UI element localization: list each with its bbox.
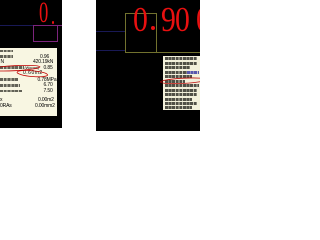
left screenshot panel	[0, 0, 62, 128]
row 3	[1, 60, 4, 65]
menu row 12	[165, 106, 192, 109]
ellipse around row4 label	[0, 64, 40, 72]
wire: purple top line	[33, 25, 62, 26]
menu row 11	[165, 102, 197, 105]
menu row 3	[165, 66, 190, 69]
row 6	[0, 78, 18, 81]
row 8	[0, 90, 22, 93]
yellow long bottom line	[125, 52, 200, 53]
row 2	[0, 55, 13, 58]
wire: blue axis line left	[0, 25, 33, 26]
tooltip result panel	[0, 48, 57, 116]
menu row 1	[165, 57, 197, 60]
ellipse around 0.60m2	[17, 69, 48, 77]
row 5 circled value	[23, 71, 43, 76]
wire: blue axis line 2	[96, 50, 125, 51]
menu row 9	[165, 93, 197, 96]
yellow wall rectangle	[125, 13, 156, 14]
row 1 label	[0, 50, 13, 53]
menu row 6 (circled)	[165, 80, 185, 83]
row 9	[0, 98, 2, 103]
red CAD text "0. 90"	[133, 2, 148, 37]
menu row 4 (tail chars blue)	[165, 71, 187, 74]
red annotation ellipse (menu)	[96, 0, 200, 131]
menu row 5	[165, 75, 192, 78]
wall outline rectangle (purple)	[33, 25, 34, 42]
menu row 8	[165, 89, 197, 92]
menu row 10	[165, 98, 192, 101]
row 10	[0, 104, 12, 109]
wire: blue axis line 1	[96, 31, 125, 32]
right screenshot panel	[96, 0, 200, 131]
red annotation ellipses (left)	[0, 0, 62, 128]
context menu	[163, 56, 200, 110]
row 4	[0, 66, 24, 69]
row 7	[0, 84, 20, 87]
clipped digit at right edge	[196, 2, 211, 37]
menu row 2	[165, 62, 197, 65]
red CAD text "0."	[39, 0, 48, 28]
menu row 7	[165, 84, 199, 87]
